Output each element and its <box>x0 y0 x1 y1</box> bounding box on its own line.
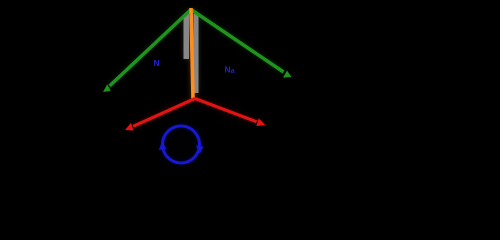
blue arrowhead right (pointing down) <box>196 146 204 154</box>
blue arrowhead left (pointing up) <box>159 141 167 150</box>
gray band right of orange line <box>194 14 199 93</box>
red right vector shaft <box>195 99 257 122</box>
svg-text:N: N <box>225 65 231 75</box>
svg-text:N: N <box>154 58 160 68</box>
red left vector shaft <box>133 99 195 127</box>
green left vector shaft <box>110 10 191 86</box>
svg-text:a: a <box>231 68 235 75</box>
gray band left of orange line <box>184 14 190 59</box>
red left arrowhead <box>125 123 134 131</box>
red right arrowhead <box>256 118 265 126</box>
green right arrowhead <box>283 71 292 78</box>
orange vertical line <box>191 8 193 99</box>
blue rotation circle <box>163 126 200 163</box>
green right vector shaft <box>191 10 284 73</box>
green left arrowhead <box>103 84 111 92</box>
halo copy (jpeg-like glow) <box>110 9 284 163</box>
